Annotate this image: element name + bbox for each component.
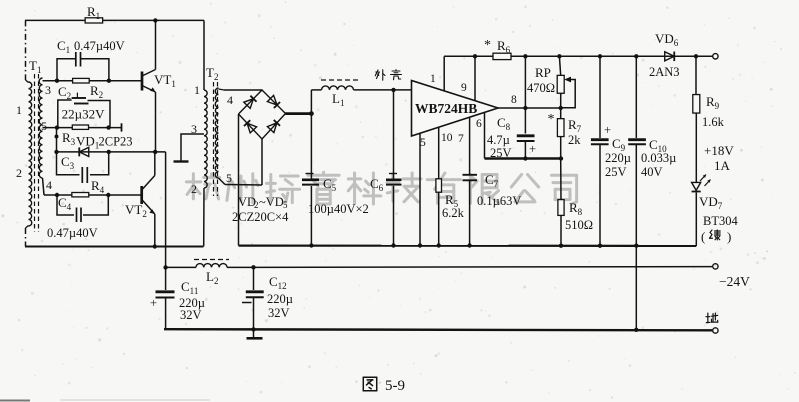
wire C7 down — [469, 180, 471, 245]
wire pin10 down — [438, 127, 440, 178]
wire VT2 emitter down — [154, 214, 156, 247]
svg-text:1: 1 — [16, 103, 22, 117]
label T1 pin 2 — [16, 166, 22, 180]
wire VD1 row — [57, 151, 166, 153]
node VD1 row mid — [107, 150, 111, 154]
wire ground rail — [164, 329, 712, 330]
svg-text:7: 7 — [458, 133, 464, 145]
label VD2-VD5 — [238, 195, 288, 210]
transformer T1 secondary winding — [39, 78, 42, 178]
wire bridge left vertex down to rail — [238, 114, 240, 246]
caption figure 5-9 — [363, 377, 405, 394]
node pin5 at rail — [418, 243, 422, 247]
resistor R7 — [548, 112, 582, 147]
case ground bar at T2 — [174, 160, 189, 162]
node pin8 row C8 — [523, 106, 527, 110]
node C7 at rail — [467, 243, 471, 247]
label pin 6 — [476, 118, 482, 130]
svg-text:5: 5 — [420, 137, 426, 149]
capacitor C6 — [370, 90, 402, 246]
svg-text:1: 1 — [194, 83, 200, 97]
svg-text:4: 4 — [46, 178, 52, 192]
capacitor C12 — [242, 267, 293, 329]
wire bridge output up to L1 — [310, 90, 312, 114]
node C6 at rail — [391, 243, 395, 247]
svg-text:+: + — [150, 296, 157, 310]
wire pin1 up — [443, 56, 445, 91]
diode VD5 (bridge bottom-right) — [267, 120, 280, 133]
node L2 left — [163, 265, 167, 269]
svg-text:*: * — [484, 38, 491, 53]
wire C10 node to ground rail — [635, 246, 637, 330]
node output R9 — [694, 54, 698, 58]
wire T2 top lead — [203, 20, 205, 90]
wire pin9 up — [474, 56, 476, 100]
label T1 pin 1 — [16, 103, 22, 117]
resistor R1 — [85, 4, 103, 23]
wire row A (tap3 to VT1 base) — [43, 80, 143, 82]
wire R8 down — [560, 215, 562, 245]
diode VD2 (bridge left-top) — [244, 96, 257, 109]
wire R7 down — [560, 137, 562, 159]
inductor L1 — [321, 80, 358, 108]
capacitor C8 — [487, 108, 536, 160]
wire tap4 to bridge top — [219, 89, 263, 90]
capacitor C7 — [463, 172, 522, 208]
svg-text:100µ40V×2: 100µ40V×2 — [308, 202, 369, 216]
node C12 top — [251, 265, 255, 269]
transformer T2 secondary winding — [215, 88, 218, 178]
svg-text:4.7µ: 4.7µ — [487, 133, 510, 147]
capacitor C11 — [150, 267, 205, 329]
resistor R8 — [558, 200, 593, 232]
diode VD6 2AN3 — [649, 31, 680, 79]
wire T2 tap3 to case ground — [181, 134, 204, 161]
svg-text:40V: 40V — [641, 165, 663, 179]
wire pin8 output row — [498, 107, 561, 109]
svg-text:510Ω: 510Ω — [565, 218, 593, 232]
label green — [701, 229, 731, 244]
label T1 pin 5 — [41, 119, 47, 133]
label T1 pin 4 — [46, 178, 52, 192]
node C9 at rail — [598, 244, 602, 248]
svg-text:6: 6 — [476, 118, 482, 130]
svg-text:BT304: BT304 — [703, 214, 738, 228]
inductor L2 — [194, 260, 229, 286]
svg-text:9: 9 — [461, 82, 467, 94]
node bridge output — [309, 111, 314, 116]
node C10 at ground rail — [634, 328, 638, 332]
svg-text:4: 4 — [227, 93, 233, 107]
svg-text:2CZ20C×4: 2CZ20C×4 — [232, 210, 289, 224]
svg-text:5-9: 5-9 — [385, 378, 405, 394]
svg-text:0.033µ: 0.033µ — [641, 151, 676, 165]
wire main bottom rail — [239, 245, 697, 247]
transformer T1 primary winding — [29, 82, 32, 226]
label waike case — [375, 70, 401, 81]
ground symbol below C12 — [247, 329, 263, 338]
svg-text:5: 5 — [283, 200, 288, 210]
label T2 pin 5 — [226, 171, 232, 185]
wire pin6 down — [484, 113, 486, 159]
svg-text:1A: 1A — [714, 158, 731, 173]
transistor VT2 — [125, 176, 155, 219]
node C10 at rail — [634, 244, 638, 248]
wire VD7 down — [695, 193, 697, 246]
node pin6 row C8 — [523, 156, 527, 160]
svg-text:220µ: 220µ — [267, 292, 293, 306]
node row A right — [107, 79, 111, 83]
label di ground — [706, 313, 718, 323]
node C10 top — [634, 54, 638, 58]
svg-text:*: * — [548, 112, 555, 127]
capacitor C4 — [47, 195, 108, 240]
svg-text:3: 3 — [45, 83, 51, 97]
svg-text:1.6k: 1.6k — [702, 115, 725, 129]
terminal -24V — [713, 264, 750, 289]
wire R8 column — [560, 159, 562, 200]
wire VT1 emitter down — [155, 92, 157, 152]
wire left drop rowB to VD1 row — [56, 128, 58, 152]
capacitor C2 — [58, 84, 110, 128]
svg-text:2k: 2k — [568, 133, 581, 147]
wire pin6 row — [485, 157, 562, 159]
label pin 10 — [441, 132, 453, 144]
transformer T2 primary winding — [204, 90, 207, 188]
label T1 pin 3 — [45, 83, 51, 97]
potentiometer RP — [527, 56, 575, 118]
wire tap5 to bridge — [219, 139, 263, 185]
svg-text:~VD: ~VD — [259, 195, 284, 209]
label 2CZ20C x4 — [232, 210, 289, 224]
capacitor C10 — [628, 56, 676, 245]
wire VT2 collector up — [154, 152, 156, 176]
label +18V 1A — [704, 143, 734, 173]
label pin 5 — [420, 137, 426, 149]
node R8 at rail — [559, 244, 563, 248]
svg-text:2AN3: 2AN3 — [649, 65, 680, 79]
wire bridge edges — [239, 90, 286, 139]
svg-text:2: 2 — [16, 166, 22, 180]
diode VD3 (bridge top-right) — [267, 95, 280, 108]
svg-text:+: + — [529, 142, 536, 156]
wire L2 left stub — [166, 266, 196, 268]
wire VD1row to L2 vertical — [165, 152, 167, 268]
wire L2 to -24V rail — [227, 266, 712, 269]
node row A left — [55, 79, 59, 83]
svg-text:RP: RP — [535, 65, 551, 80]
resistor R4 — [72, 178, 105, 197]
wire row B (tap5, R3) — [43, 123, 122, 131]
svg-text:(: ( — [701, 229, 705, 244]
wire VT1 collector up — [155, 20, 157, 69]
svg-text:22µ32V: 22µ32V — [62, 107, 105, 122]
node pin6 row R7 — [559, 156, 563, 160]
capacitor C3 — [57, 152, 109, 183]
svg-text:−24V: −24V — [719, 274, 750, 289]
capacitor C1 — [57, 38, 125, 81]
svg-text:32V: 32V — [268, 306, 290, 320]
svg-text:5: 5 — [226, 171, 232, 185]
node R6 right — [523, 54, 527, 58]
label pin 1 — [430, 73, 436, 85]
node row B right — [106, 125, 110, 129]
label T2 pin 1 — [194, 83, 200, 97]
svg-text:2: 2 — [254, 200, 259, 210]
label T2 — [206, 65, 218, 82]
scan edge marks — [0, 399, 210, 402]
wire feedback rail — [444, 55, 713, 57]
capacitor C9 — [591, 56, 631, 245]
LED VD7 BT304 — [692, 175, 739, 229]
resistor R3 — [62, 125, 89, 147]
wire R9 down to LED — [695, 113, 697, 182]
node R5 at rail — [437, 243, 441, 247]
label pin 7 — [458, 133, 464, 145]
wire pin7 down — [469, 118, 471, 175]
terminal +output — [713, 54, 718, 59]
node VD1 row left — [54, 150, 58, 154]
node C5 at rail — [309, 243, 313, 247]
node below tap5 — [55, 135, 59, 139]
label pin 9 — [461, 82, 467, 94]
svg-text:+18V: +18V — [704, 143, 734, 158]
node pin9 at feedback rail — [473, 54, 477, 58]
wire bridge right vertex output — [286, 112, 312, 115]
diode VD1 2CP23 — [76, 134, 133, 157]
node pin8 row RP — [559, 106, 563, 110]
svg-text:0.1µ63V: 0.1µ63V — [477, 194, 521, 208]
node row D right — [106, 193, 110, 197]
node row B left — [55, 125, 59, 129]
node VD1 row at VT vertical — [153, 150, 157, 154]
svg-text:0.47µ40V: 0.47µ40V — [47, 226, 98, 240]
wire R5 down — [438, 192, 440, 245]
svg-text:8: 8 — [511, 94, 517, 106]
transformer T2 core — [214, 82, 218, 196]
label T1 — [29, 58, 41, 75]
wire row D (tap4 to VT2 base) — [43, 178, 142, 195]
svg-text:25V: 25V — [605, 165, 627, 179]
label pin 8 — [511, 94, 517, 106]
wire top rail — [25, 19, 204, 21]
svg-text:2: 2 — [191, 182, 197, 196]
resistor R5 — [436, 179, 465, 220]
wire T2 primary bottom lead — [203, 188, 205, 247]
watermark text — [186, 172, 576, 204]
wire R6 node down to pin8 row — [524, 56, 526, 108]
svg-text:32V: 32V — [180, 308, 202, 322]
svg-text:WB724HB: WB724HB — [415, 101, 477, 116]
svg-text:6.2k: 6.2k — [442, 206, 465, 220]
node VT2 emitter at rail — [153, 244, 157, 248]
resistor R6 — [484, 38, 511, 60]
label T2 pin 2 — [191, 182, 197, 196]
label T2 pin 4 — [227, 93, 233, 107]
node C9 top — [598, 54, 602, 58]
node C6 top — [391, 88, 395, 92]
node C12 at ground rail — [251, 327, 255, 331]
transformer T1 core — [35, 74, 39, 232]
wire left dash-dot lead top — [26, 20, 29, 82]
svg-text:2CP23: 2CP23 — [99, 135, 133, 149]
svg-text:470Ω: 470Ω — [527, 81, 555, 95]
resistor R2 — [73, 78, 104, 99]
wire left bottom rail — [25, 246, 204, 248]
label 100u40Vx2 — [308, 202, 369, 216]
resistor R9 — [693, 56, 725, 129]
transistor VT1 — [142, 70, 176, 93]
svg-text:10: 10 — [441, 132, 453, 144]
wire L1 to IC input — [354, 89, 412, 91]
capacitor C5 — [302, 114, 337, 246]
diode VD4 (bridge bottom-left) — [244, 120, 257, 133]
wire pin5 down — [419, 133, 421, 245]
label T2 pin 3 — [191, 122, 197, 136]
svg-text:5: 5 — [41, 119, 47, 133]
node RP top at rail — [557, 54, 561, 58]
terminal ground — [713, 328, 718, 333]
op-amp U1 WB724HB — [412, 81, 499, 137]
svg-text:): ) — [727, 229, 731, 244]
node top rail / VT1 collector — [153, 18, 157, 22]
svg-text:220µ: 220µ — [605, 151, 631, 165]
svg-text:+: + — [604, 123, 611, 137]
svg-text:0.47µ40V: 0.47µ40V — [74, 39, 125, 53]
svg-text:1: 1 — [430, 73, 436, 85]
wire L1 left stub — [311, 89, 321, 91]
node row D left — [55, 193, 59, 197]
svg-text:25V: 25V — [490, 146, 512, 160]
wire left dash-dot lead bottom — [26, 226, 29, 247]
